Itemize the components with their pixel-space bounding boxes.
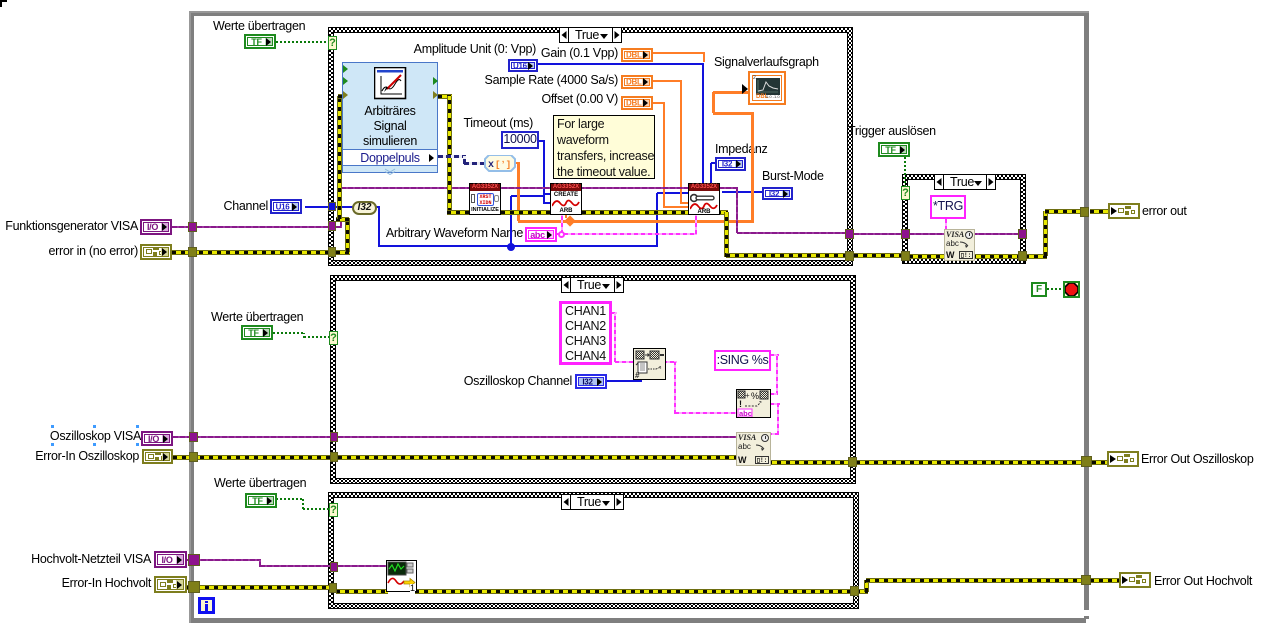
svg-text:[ʼ]: [ʼ] (495, 160, 511, 170)
svg-text:abc: abc (739, 409, 752, 417)
svg-text:%: % (751, 391, 759, 401)
svg-text:#: # (635, 371, 640, 379)
svg-text:x: x (488, 160, 494, 171)
svg-text:!: ! (739, 399, 742, 409)
svg-text:+: + (745, 391, 750, 400)
